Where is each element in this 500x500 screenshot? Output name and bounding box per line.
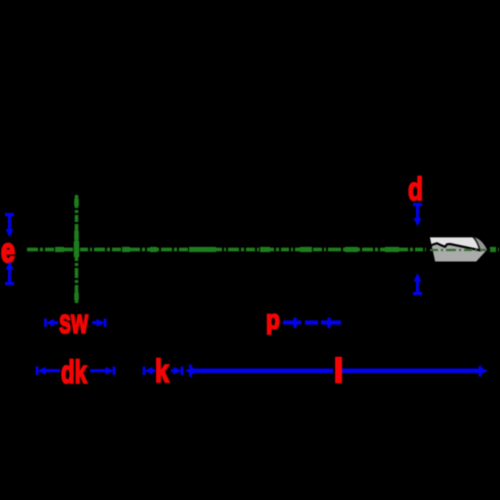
d arrows (blue, vertical) (413, 204, 422, 294)
right crescent (472, 236, 489, 250)
vertical green centerline (75, 195, 79, 303)
svg-text:dk: dk (61, 354, 87, 390)
l dimension line (185, 365, 488, 378)
k row (144, 367, 182, 376)
bottom darker region (430, 244, 489, 264)
svg-text:sw: sw (59, 303, 88, 341)
svg-text:l: l (334, 352, 343, 389)
gray shape (tool tip) (428, 236, 489, 263)
svg-text:d: d (408, 171, 423, 207)
horizontal green centerline (27, 248, 499, 252)
thick spots (55, 247, 496, 252)
svg-text:p: p (266, 305, 280, 335)
outline again on top (428, 236, 489, 263)
jagged line (430, 243, 482, 250)
crescent inner edge (473, 236, 480, 250)
dk row (37, 367, 114, 376)
e arrows (blue, vertical) (5, 214, 14, 284)
svg-text:k: k (155, 353, 169, 389)
green dashes over shape (430, 249, 486, 251)
sw row (46, 319, 106, 328)
